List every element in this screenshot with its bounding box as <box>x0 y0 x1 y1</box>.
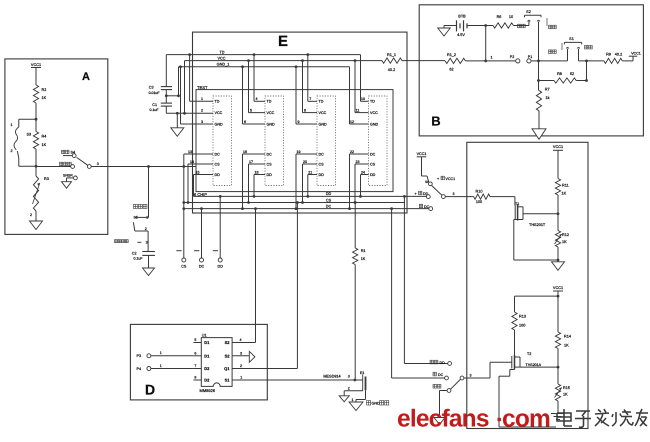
svg-text:D1: D1 <box>204 353 210 358</box>
svg-text:C3: C3 <box>149 86 154 90</box>
pins 7-9 block 3 <box>308 100 317 102</box>
ground (T2) <box>551 413 565 415</box>
svg-text:DC: DC <box>370 152 376 156</box>
ground (SNSR) <box>62 182 72 189</box>
switch S6 contact VCC1 <box>428 182 432 186</box>
pins 16-18 block 2 <box>243 153 266 155</box>
resistor R11 1K <box>555 179 560 196</box>
svg-text:10: 10 <box>361 97 365 101</box>
svg-text:1K: 1K <box>562 192 567 196</box>
wire CS bus to U1 pin2 <box>296 201 299 204</box>
svg-text:1: 1 <box>240 376 242 380</box>
svg-text:2: 2 <box>145 227 147 231</box>
svg-text:R6: R6 <box>497 15 502 19</box>
svg-text:VCC: VCC <box>267 111 275 115</box>
svg-text:1: 1 <box>491 55 493 59</box>
svg-text:TD: TD <box>219 50 224 54</box>
switch contact DD-std <box>430 360 434 364</box>
resistor R7 1k <box>538 81 540 91</box>
svg-text:2: 2 <box>240 364 242 368</box>
wire <box>148 255 150 268</box>
svg-text:SNSR: SNSR <box>63 174 73 178</box>
wire hooks to bottom buses <box>295 154 297 209</box>
svg-text:R11: R11 <box>562 184 569 188</box>
svg-text:R8: R8 <box>557 72 562 76</box>
svg-text:2: 2 <box>201 108 203 112</box>
svg-text:14: 14 <box>190 160 194 164</box>
svg-text:2: 2 <box>11 149 13 153</box>
svg-text:VCC: VCC <box>215 111 223 115</box>
wire <box>165 90 167 104</box>
svg-text:R2: R2 <box>42 88 47 92</box>
svg-text:D: D <box>145 382 155 398</box>
svg-text:VCC1: VCC1 <box>631 51 641 55</box>
wire DC bus to U1 pin4 <box>254 207 257 210</box>
wire <box>444 25 457 27</box>
svg-text:15: 15 <box>196 170 200 174</box>
resistor R10 100 <box>474 194 490 199</box>
svg-text:2: 2 <box>30 213 32 217</box>
wire <box>538 111 540 129</box>
svg-text:1: 1 <box>11 123 13 127</box>
svg-text:TD: TD <box>370 100 375 104</box>
wire to T2 gate <box>464 377 490 379</box>
switch contact DC <box>433 372 437 376</box>
box B <box>419 5 643 136</box>
svg-text:T2: T2 <box>527 352 531 356</box>
svg-text:R4: R4 <box>42 135 47 139</box>
svg-text:VCC1: VCC1 <box>31 63 41 67</box>
svg-text:GND: GND <box>372 402 381 406</box>
svg-text:8: 8 <box>304 108 306 112</box>
svg-text:22: 22 <box>350 150 354 154</box>
wire <box>35 211 37 221</box>
watermark CJK 电子发烧友 <box>557 409 648 427</box>
ground (E caps) <box>171 128 184 137</box>
resistor R9 40.2 <box>604 58 622 63</box>
wire to T1 gate <box>490 196 515 198</box>
chip block 1 (dashed) <box>213 96 232 186</box>
switch arm + common <box>460 376 464 380</box>
svg-text:S2: S2 <box>526 10 531 14</box>
box A <box>5 59 108 235</box>
resistor R2 1K <box>33 85 38 103</box>
svg-text:5: 5 <box>194 338 196 342</box>
resistor R1_2 62 <box>445 58 465 63</box>
svg-text:3: 3 <box>201 120 203 124</box>
chip block 4 (dashed) <box>369 96 388 186</box>
svg-text:18: 18 <box>255 170 259 174</box>
svg-text:A: A <box>82 71 90 83</box>
wire T1 source <box>514 219 518 221</box>
svg-text:DD: DD <box>215 173 221 177</box>
svg-text:4: 4 <box>240 338 242 342</box>
svg-text:DC: DC <box>319 152 325 156</box>
svg-text:C2: C2 <box>132 251 137 255</box>
svg-text:E: E <box>278 33 288 50</box>
wire GND left drop <box>178 67 180 96</box>
svg-text:5: 5 <box>250 108 252 112</box>
wire S2 right leg <box>538 22 540 81</box>
svg-text:TEST: TEST <box>197 85 208 90</box>
svg-text:D1: D1 <box>204 340 210 345</box>
svg-text:com: com <box>502 406 550 433</box>
svg-text:3: 3 <box>453 192 455 196</box>
wire hooks to top buses <box>253 55 255 102</box>
svg-text:DD: DD <box>319 173 325 177</box>
svg-text:MM8926: MM8926 <box>200 388 216 393</box>
wire <box>165 106 167 113</box>
wire <box>513 25 529 27</box>
svg-text:R9: R9 <box>606 53 611 57</box>
svg-text:23: 23 <box>356 160 360 164</box>
svg-text:DC: DC <box>267 152 273 156</box>
switch arm S4 <box>77 157 88 165</box>
wire to ground <box>440 390 448 392</box>
svg-text:E1: E1 <box>360 371 364 375</box>
svg-text:S2: S2 <box>225 353 231 358</box>
svg-text:VCC1: VCC1 <box>417 152 427 156</box>
svg-text:C1: C1 <box>152 103 157 107</box>
svg-text:3: 3 <box>348 375 350 379</box>
svg-text:3: 3 <box>146 241 148 245</box>
wire hooks to top buses <box>360 55 362 102</box>
svg-text:1k: 1k <box>546 96 550 100</box>
wire R13 branch <box>515 295 559 297</box>
svg-text:CS: CS <box>215 162 221 166</box>
wire <box>557 401 559 414</box>
svg-text:1: 1 <box>201 97 203 101</box>
resistor R4 1K <box>35 119 37 131</box>
svg-text:9: 9 <box>298 120 300 124</box>
svg-text:21: 21 <box>308 170 312 174</box>
wire <box>166 95 178 97</box>
svg-text:CS: CS <box>370 162 376 166</box>
svg-text:S3: S3 <box>27 133 32 137</box>
wire E1 to ground <box>365 390 367 399</box>
switch contact GND <box>433 384 437 388</box>
ground (T1) <box>552 262 565 271</box>
wire hooks block1 bottom <box>187 164 189 203</box>
svg-text:DD: DD <box>370 173 376 177</box>
svg-text:3: 3 <box>470 373 472 377</box>
svg-text:P4: P4 <box>137 367 142 371</box>
svg-text:40.2: 40.2 <box>388 68 395 72</box>
svg-text:GND: GND <box>215 122 224 126</box>
svg-text:DC: DC <box>199 265 205 269</box>
resistor R3 (variable) <box>35 166 37 176</box>
svg-text:0.1uF: 0.1uF <box>134 257 143 261</box>
U1 pin 5 <box>193 342 201 344</box>
svg-text:0.01uF: 0.01uF <box>149 91 160 95</box>
svg-text:4: 4 <box>256 97 258 101</box>
test point CS <box>183 154 185 258</box>
svg-text:1: 1 <box>160 364 162 368</box>
svg-text:S1: S1 <box>225 378 231 383</box>
svg-text:10: 10 <box>509 15 513 19</box>
svg-text:R14: R14 <box>564 335 571 339</box>
svg-text:DD: DD <box>440 361 446 365</box>
wire A output <box>91 166 196 168</box>
wire <box>557 195 559 231</box>
svg-text:17: 17 <box>249 160 253 164</box>
wire <box>35 68 37 86</box>
wire <box>557 247 559 262</box>
wire <box>176 113 178 128</box>
svg-text:3: 3 <box>97 162 99 166</box>
resistor R6 10 <box>486 25 493 27</box>
resistor R13 100 <box>512 312 517 330</box>
svg-text:U1: U1 <box>202 333 207 337</box>
label GND cutoff <box>367 401 371 405</box>
svg-text:GND_1: GND_1 <box>217 63 230 67</box>
chip block 2 (dashed) <box>265 96 284 186</box>
svg-text:12: 12 <box>350 120 354 124</box>
wire <box>35 103 37 119</box>
svg-text:TD: TD <box>319 100 324 104</box>
ground (R7) <box>532 129 546 140</box>
pins 10-12 block 4 <box>361 100 369 102</box>
svg-text:CS: CS <box>319 162 325 166</box>
svg-text:MESD914: MESD914 <box>323 375 340 379</box>
svg-text:7: 7 <box>194 364 196 368</box>
svg-text:6: 6 <box>244 120 246 124</box>
svg-text:4.5V: 4.5V <box>457 33 465 37</box>
svg-text:1K: 1K <box>361 257 366 261</box>
wire hooks to bottom buses <box>242 154 244 209</box>
ground (E1 pin2) <box>339 396 349 402</box>
wire <box>586 61 588 81</box>
box D <box>130 324 267 400</box>
wire hooks to bottom buses <box>349 154 351 209</box>
switch S6 contact DC <box>419 204 422 208</box>
svg-text:TD: TD <box>267 100 272 104</box>
wire TD pin1 drop <box>188 53 191 56</box>
pins 4-6 block 2 <box>254 100 265 102</box>
svg-text:DC: DC <box>438 373 444 377</box>
svg-text:R1_2: R1_2 <box>447 53 456 57</box>
TEST block <box>196 90 393 192</box>
resistor R14 1K <box>555 332 560 349</box>
svg-text:Q1: Q1 <box>224 366 230 371</box>
svg-text:CS: CS <box>181 265 187 269</box>
svg-text:62: 62 <box>570 72 574 76</box>
svg-text:R3: R3 <box>44 177 49 181</box>
wire VCC left drop <box>184 61 186 114</box>
svg-text:D2: D2 <box>204 378 210 383</box>
wire GND pin3 drop <box>179 65 182 68</box>
svg-text:S1: S1 <box>569 37 574 41</box>
wire to B <box>402 60 445 62</box>
ground (battery) <box>438 28 451 36</box>
svg-text:100: 100 <box>519 324 525 328</box>
svg-text:2: 2 <box>348 387 350 391</box>
svg-text:1K: 1K <box>563 393 568 397</box>
U1 pin 6 <box>193 355 201 357</box>
svg-text:11: 11 <box>356 108 360 112</box>
svg-text:6: 6 <box>194 351 196 355</box>
svg-text:16: 16 <box>243 150 247 154</box>
svg-text:R10: R10 <box>476 190 483 194</box>
wire <box>514 330 516 355</box>
svg-text:R1: R1 <box>361 249 366 253</box>
wire E1 pin2 <box>344 390 363 392</box>
svg-text:TD: TD <box>215 100 220 104</box>
svg-text:1K: 1K <box>562 240 567 244</box>
resistor R8 62 <box>539 80 555 82</box>
wire <box>17 151 19 158</box>
resistor R15 1K (variable) <box>557 367 559 384</box>
svg-text:62: 62 <box>449 68 453 72</box>
svg-text:19: 19 <box>297 150 301 154</box>
svg-text:1K: 1K <box>564 344 569 348</box>
resistor R1 1K on CS drop <box>354 201 357 204</box>
switch S5 (connect capacitor) <box>148 167 150 218</box>
svg-text:D2: D2 <box>204 366 210 371</box>
U1 pin 7 <box>193 368 201 370</box>
pins 13-15 block 1 <box>184 153 213 155</box>
svg-text:VCC: VCC <box>319 111 327 115</box>
switch S6 arm + common <box>442 195 446 199</box>
wire / node <box>35 149 37 166</box>
svg-text:CS: CS <box>267 162 273 166</box>
svg-text:GND: GND <box>319 122 328 126</box>
svg-text:20: 20 <box>303 160 307 164</box>
wire hooks to top buses <box>307 55 309 102</box>
chip block 3 (dashed) <box>317 96 336 186</box>
svg-text:P3: P3 <box>137 354 142 358</box>
svg-text:GND: GND <box>370 122 379 126</box>
wire DC bus drop to lower switch <box>390 207 393 210</box>
svg-text:8: 8 <box>194 376 196 380</box>
wire pin2 row <box>166 112 213 114</box>
wire T2 source <box>510 369 515 371</box>
svg-text:VCC: VCC <box>370 111 378 115</box>
svg-text:1K: 1K <box>42 96 47 100</box>
svg-text:VCC1: VCC1 <box>553 286 563 290</box>
svg-text:DD: DD <box>218 265 224 269</box>
svg-text:1: 1 <box>160 351 162 355</box>
wire <box>531 60 568 62</box>
svg-text:VCC1: VCC1 <box>553 145 563 149</box>
ground (A) <box>30 221 43 230</box>
svg-text:R15: R15 <box>563 386 570 390</box>
svg-text:B: B <box>431 114 440 129</box>
test point DC <box>201 209 203 258</box>
resistor R12 1K (variable) <box>555 231 560 248</box>
U1 pin 8 <box>193 379 201 381</box>
ground (switch) <box>434 418 445 425</box>
switch S4 <box>62 150 65 153</box>
svg-text:R7: R7 <box>545 88 550 92</box>
svg-text:THS201T: THS201T <box>529 223 546 227</box>
box E <box>193 32 408 213</box>
wire <box>19 118 36 120</box>
svg-text:R12: R12 <box>562 233 569 237</box>
svg-text:VCC: VCC <box>217 57 225 61</box>
svg-text:THS201A: THS201A <box>526 363 542 367</box>
svg-text:40.2: 40.2 <box>615 53 622 57</box>
test point DD <box>219 196 221 258</box>
svg-text:S2: S2 <box>225 340 231 345</box>
svg-text:GND: GND <box>267 122 276 126</box>
svg-text:7: 7 <box>309 97 311 101</box>
wire / node 1 <box>465 60 515 62</box>
power VCC1 (B) <box>622 60 633 62</box>
svg-text:DC: DC <box>215 152 221 156</box>
svg-text:VCC1: VCC1 <box>446 177 456 181</box>
pins 22-24 block 4 <box>350 153 369 155</box>
ground (C2) <box>143 268 155 276</box>
svg-text:elecfans: elecfans <box>397 406 489 433</box>
svg-text:100: 100 <box>476 200 482 204</box>
svg-text:24: 24 <box>361 170 365 174</box>
wire DD bus drop to lower switch <box>403 195 406 198</box>
svg-text:BTB: BTB <box>458 15 466 19</box>
wire TD left drop <box>165 55 167 87</box>
svg-text:P2: P2 <box>510 55 515 59</box>
svg-text:R1_1: R1_1 <box>387 53 396 57</box>
pins 19-21 block 3 <box>296 153 317 155</box>
svg-text:1: 1 <box>352 398 354 402</box>
wire <box>579 60 604 62</box>
box C <box>467 142 588 428</box>
svg-text:DD: DD <box>267 173 273 177</box>
ground (E1) <box>349 402 363 411</box>
wire <box>445 196 473 198</box>
svg-text:3: 3 <box>240 352 242 356</box>
wire U1 pin1 to E1 <box>267 379 362 381</box>
svg-text:DD: DD <box>326 192 332 196</box>
resistor R1_1 40.2 <box>382 58 402 63</box>
svg-text:CS: CS <box>326 198 332 202</box>
wire <box>467 25 486 27</box>
svg-text:DC: DC <box>326 204 332 208</box>
svg-text:1K: 1K <box>42 143 47 147</box>
svg-text:R13: R13 <box>519 315 526 319</box>
wire <box>557 349 559 368</box>
svg-text:13: 13 <box>188 150 192 154</box>
svg-text:0.1uF: 0.1uF <box>150 108 159 112</box>
